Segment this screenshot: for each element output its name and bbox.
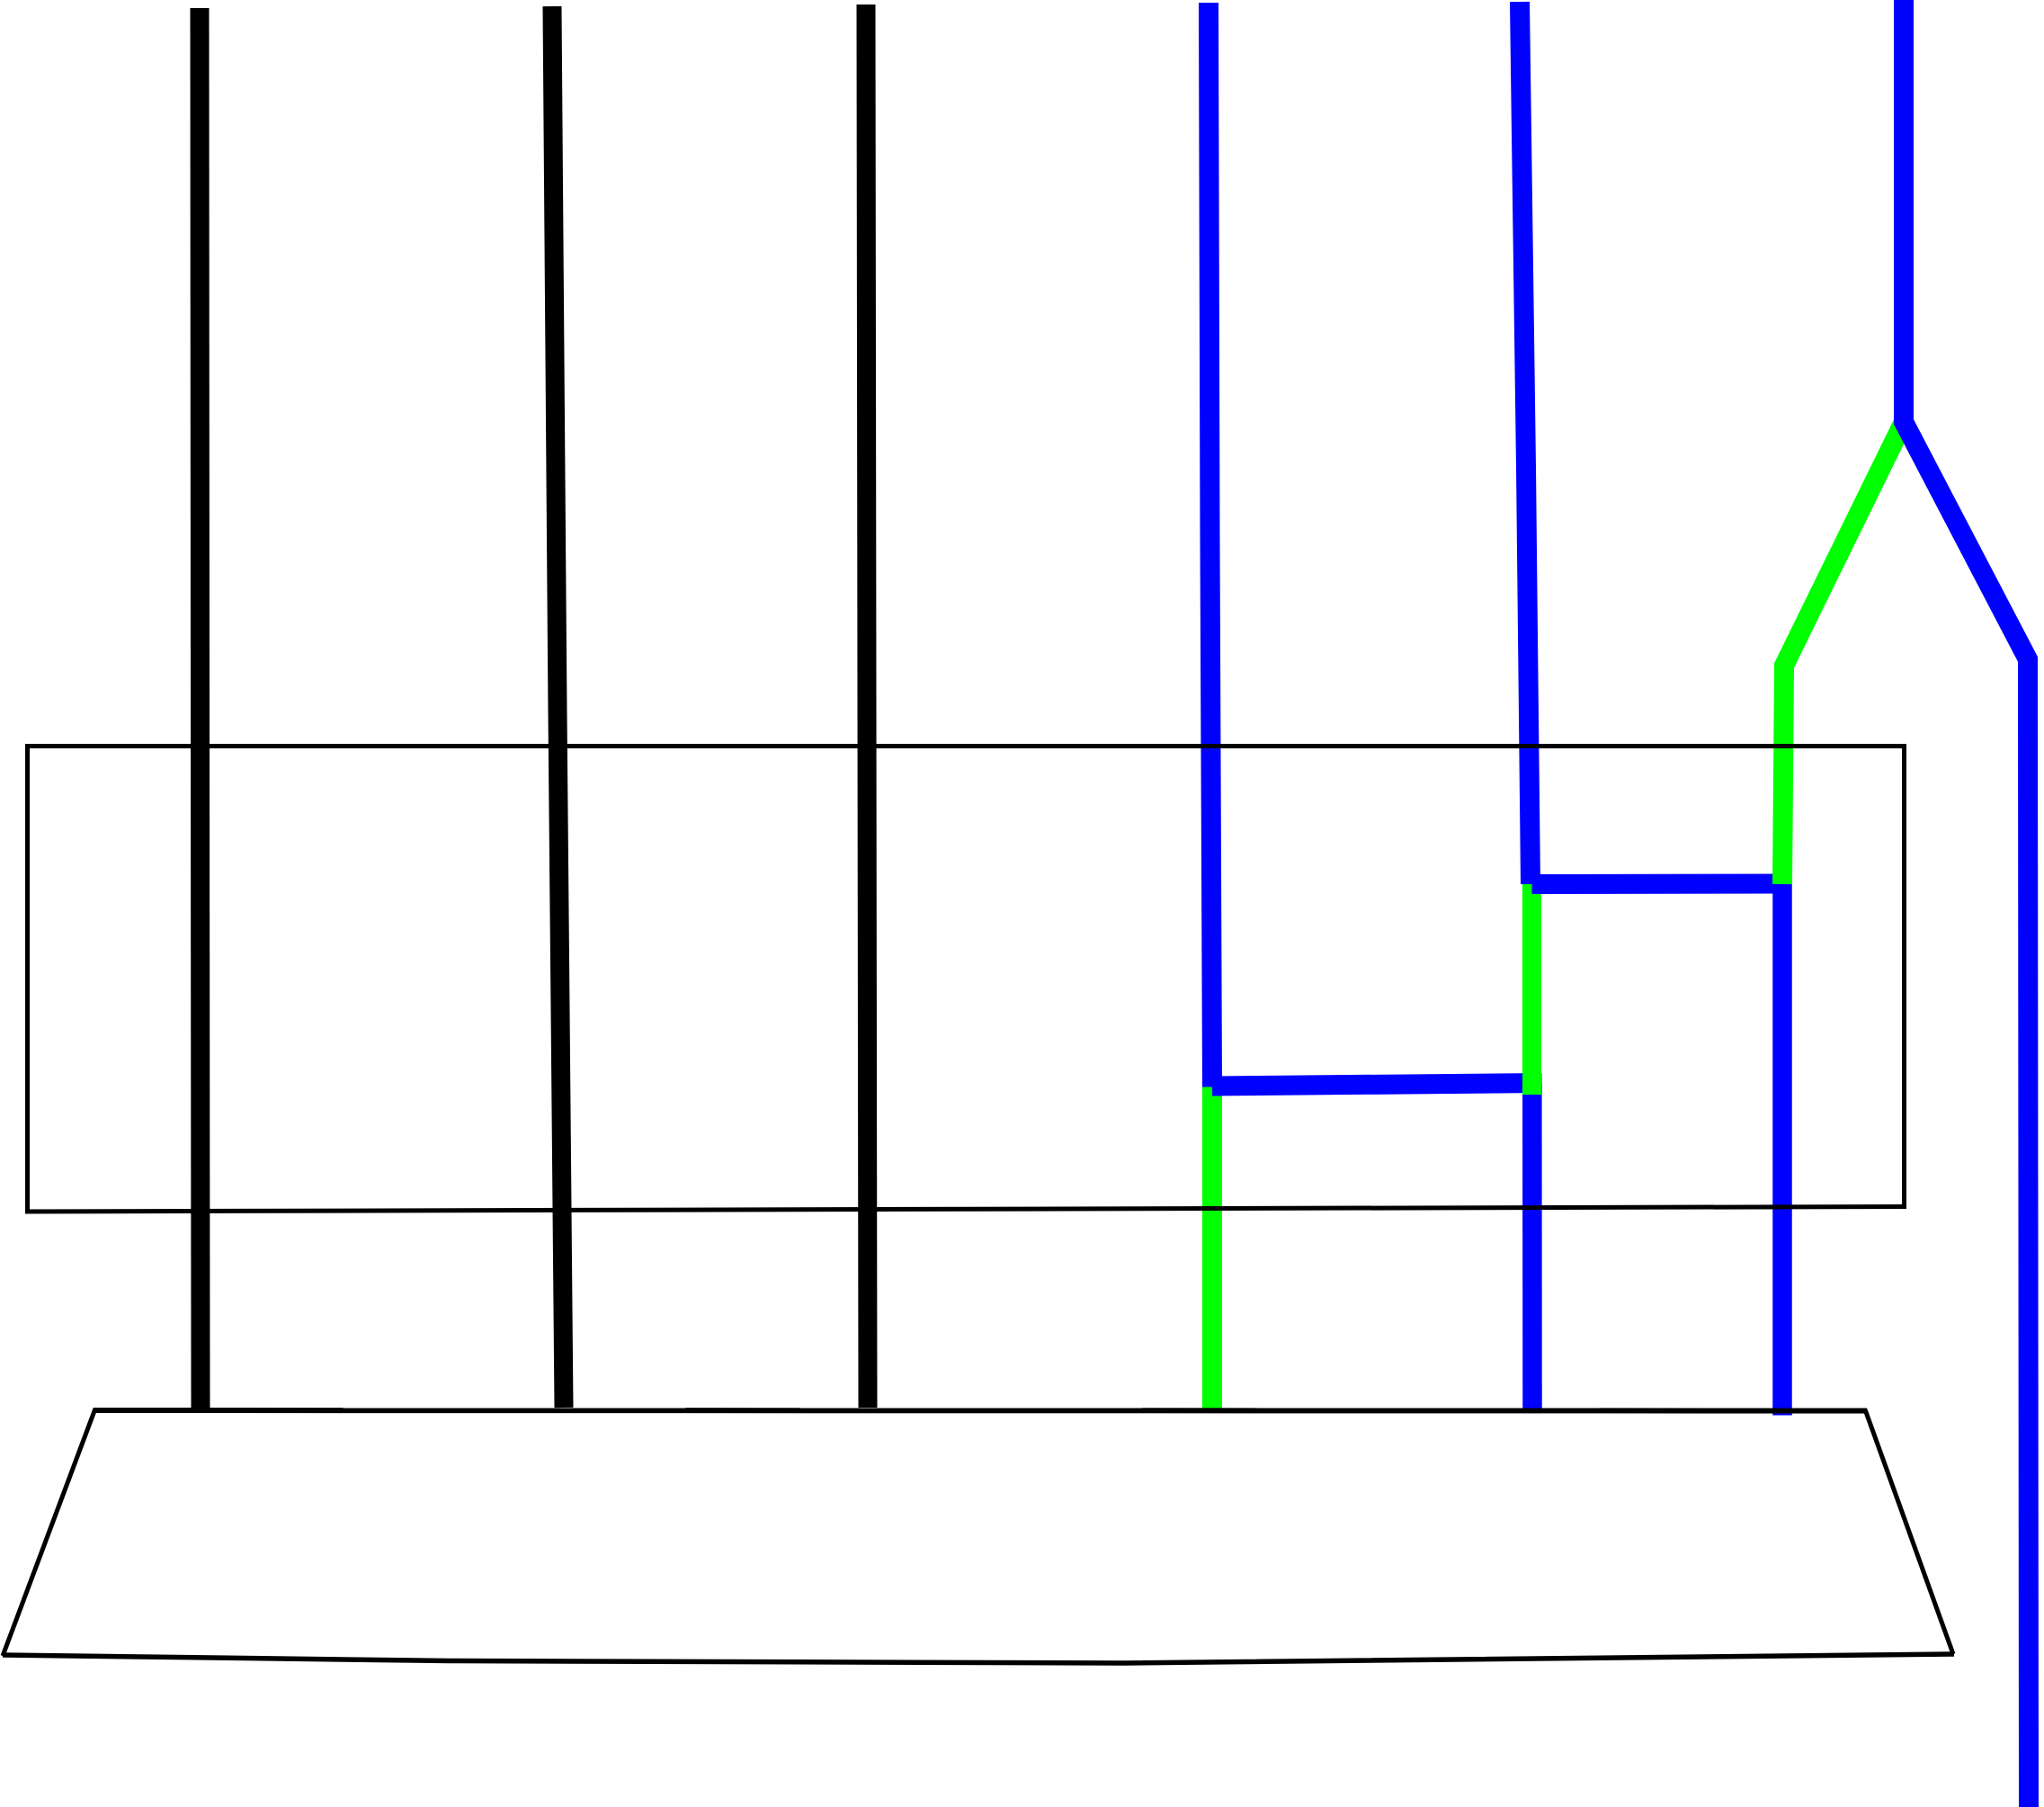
rectangle top edge (25, 744, 1906, 748)
green tail below lower elbow down to trapezoid top (1202, 1087, 1222, 1411)
trapezoid bottom edge (3, 1654, 1954, 1663)
rectangle bottom edge (25, 1207, 1906, 1212)
trapezoid top edge (94, 1408, 1867, 1414)
black pole 2 (552, 6, 564, 1408)
blue line 1 vertical run (1209, 3, 1212, 1087)
blue lower horizontal (over green tail top) (1212, 1083, 1542, 1087)
blue line 3: vertical, diagonal branch, long vertical to bottom (over green apex) (1904, 0, 2029, 1807)
green branch: diagonal from apex then vertical (over upper horizontal right end) (1782, 424, 1903, 884)
trapezoid right slant edge (1865, 1409, 1953, 1654)
blue line 2 vertical run (1520, 2, 1531, 884)
green connector between the two horizontals (1522, 884, 1541, 1095)
blue drop from upper horizontal (crosses trapezoid top edge) (1772, 883, 1792, 1416)
blue drop from lower horizontal to trapezoid top (1522, 1084, 1542, 1409)
blue upper horizontal (over green connector top) (1532, 874, 1792, 895)
rectangle right edge (1902, 744, 1906, 1209)
black pole 1 (200, 8, 201, 1408)
trapezoid left slant edge (3, 1409, 95, 1656)
rectangle left edge (25, 744, 30, 1213)
black pole 3 (866, 4, 868, 1408)
